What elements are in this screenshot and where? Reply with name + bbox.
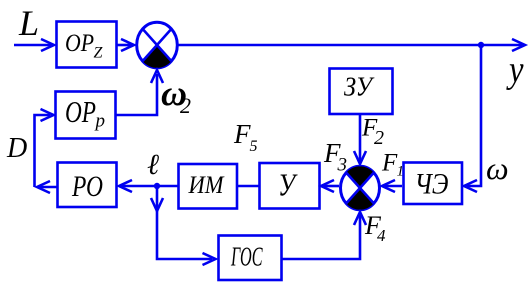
block IM (ИМ): [179, 164, 238, 209]
wire PO to OP_p feedback: [40, 186, 58, 189]
svg-text:ω: ω: [486, 150, 509, 186]
svg-text:2: 2: [374, 127, 384, 149]
block U (У): [260, 163, 320, 209]
svg-text:РО: РО: [71, 170, 103, 203]
svg-text:ОР: ОР: [65, 94, 96, 129]
svg-text:3: 3: [337, 155, 348, 176]
svg-text:2: 2: [180, 93, 191, 118]
wire ChE to S2: [385, 185, 402, 188]
wire S1 to output y: [179, 44, 523, 47]
svg-text:D: D: [6, 133, 27, 164]
node junction top right: [478, 42, 484, 48]
block GOS (ГОС): [219, 236, 282, 281]
svg-text:ЗУ: ЗУ: [344, 72, 375, 102]
wire IM to PO through node l: [122, 185, 179, 188]
wire OPZ to summer 1: [118, 44, 132, 47]
block OP_p: [56, 92, 116, 139]
wire GOS to S2: [282, 215, 361, 259]
svg-text:1: 1: [397, 164, 405, 180]
svg-text:F: F: [233, 119, 251, 149]
svg-text:y: y: [506, 49, 524, 91]
svg-text:4: 4: [377, 226, 386, 245]
summing junction S1: [137, 22, 178, 68]
wire node l down to GOS: [157, 186, 212, 259]
summing junction S2: [341, 166, 380, 210]
block ZU (ЗУ): [330, 69, 393, 115]
svg-text:р: р: [94, 111, 106, 132]
svg-text:ЧЭ: ЧЭ: [415, 168, 449, 201]
svg-text:ℓ: ℓ: [147, 149, 159, 181]
block ChE (ЧЭ): [404, 163, 463, 205]
svg-text:У: У: [278, 167, 298, 203]
block PO (РО): [58, 163, 117, 208]
svg-text:Z: Z: [94, 45, 104, 62]
svg-text:ИМ: ИМ: [188, 172, 225, 199]
svg-text:5: 5: [250, 138, 258, 155]
wire OP_p to S1: [116, 74, 158, 115]
svg-text:L: L: [18, 3, 39, 43]
wire U to IM: [238, 185, 260, 188]
wire junction down to ChE: [467, 45, 481, 186]
node l junction: [154, 183, 160, 189]
wire L input: [14, 44, 51, 47]
svg-text:ОР: ОР: [65, 30, 94, 57]
svg-text:ГОС: ГОС: [230, 242, 263, 272]
svg-text:F: F: [381, 150, 398, 177]
wire S2 to U: [324, 185, 339, 188]
block OP_Z: [57, 22, 117, 68]
wire ZU down to S2: [359, 115, 362, 162]
